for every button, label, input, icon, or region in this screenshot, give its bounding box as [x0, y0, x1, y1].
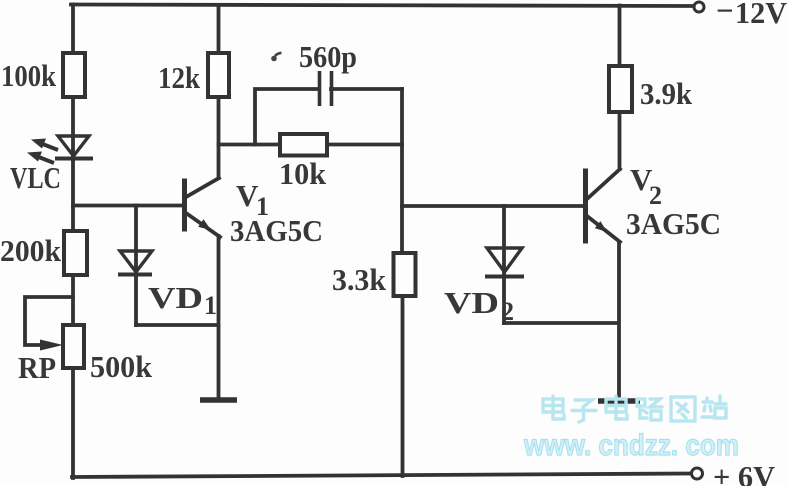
potentiometer RP 500k [18, 297, 153, 385]
svg-text:12k: 12k [158, 60, 201, 95]
wire VD1 to V1 emitter [136, 323, 219, 327]
svg-text:+ 6V: + 6V [713, 459, 776, 486]
resistor 100k [1, 53, 85, 97]
svg-text:10k: 10k [279, 156, 327, 191]
ground V1 emitter [200, 397, 237, 403]
svg-text:RP: RP [18, 350, 56, 385]
wire VD2 to V2 emitter [504, 321, 619, 325]
wire collector node to 10k [219, 143, 281, 147]
wire 12k top lead [217, 5, 221, 53]
wire 3.3k to bottom rail [401, 296, 405, 476]
capacitor 560p [271, 39, 357, 106]
wire left rail top segment [71, 5, 75, 54]
wire V1 base wire [73, 204, 183, 208]
svg-text:VD: VD [444, 285, 499, 320]
svg-text:3AG5C: 3AG5C [230, 213, 323, 248]
svg-text:VD: VD [148, 280, 203, 315]
svg-text:3AG5C: 3AG5C [626, 206, 721, 241]
svg-text:500k: 500k [90, 349, 153, 384]
resistor 3.3k [332, 253, 416, 297]
diode VD2 [444, 206, 524, 326]
wire 100k to LED [71, 97, 75, 160]
svg-text:3.9k: 3.9k [640, 76, 693, 111]
char tu [671, 397, 695, 421]
ground V2 emitter [598, 398, 640, 404]
wire V2 base wire [402, 204, 584, 208]
char dian 2 [606, 396, 627, 419]
svg-text:www. cndzz. com: www. cndzz. com [523, 429, 739, 462]
wire 10k right lead [327, 143, 402, 147]
wire V1 emitter down [217, 236, 221, 399]
char lu [637, 399, 662, 420]
svg-text:3.3k: 3.3k [332, 262, 387, 297]
svg-text:200k: 200k [0, 233, 62, 268]
wire 560p right lead [331, 87, 402, 91]
resistor 200k [0, 231, 87, 275]
wire V2 emitter down [617, 242, 621, 400]
wire branch up to 560p [255, 89, 319, 145]
wire LED to 200k (node at base wire) [71, 156, 75, 231]
svg-text:100k: 100k [1, 58, 57, 93]
transistor V1 3AG5C [185, 178, 324, 248]
wire 12k to V1 collector [217, 97, 221, 178]
resistor 12k [158, 53, 229, 97]
wire bottom supply rail [72, 474, 690, 478]
char zhan [702, 396, 726, 418]
transistor V2 3AG5C [586, 162, 722, 242]
wire 3.9k top lead [618, 6, 622, 67]
LED VLC [10, 136, 93, 195]
svg-text:−: − [716, 0, 734, 28]
wire 200k to RP [71, 275, 75, 325]
watermark site name (hand-drawn CJK strokes) [543, 396, 726, 422]
svg-text:VLC: VLC [10, 160, 61, 195]
svg-text:560p: 560p [299, 39, 357, 74]
char zi [572, 400, 596, 422]
wire right branch vertical [400, 89, 404, 253]
wire top supply rail [71, 5, 693, 7]
terminal +6V [692, 468, 703, 479]
diode VD1 [118, 206, 217, 326]
wire 3.9k to V2 collector [618, 112, 622, 169]
svg-text:12V: 12V [735, 0, 787, 30]
char dian 1 [543, 396, 564, 419]
svg-text:1: 1 [204, 291, 217, 320]
wire RP to bottom rail [71, 368, 75, 478]
resistor 10k [279, 134, 327, 191]
terminal -12V [694, 2, 704, 12]
resistor 3.9k [609, 66, 693, 112]
